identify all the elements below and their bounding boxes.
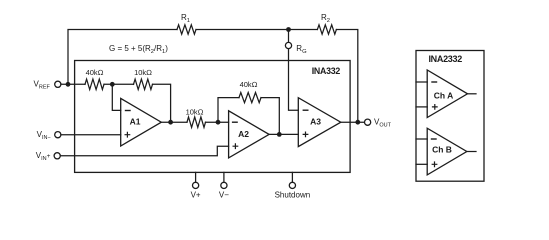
op-amp A1 minus sign: [126, 110, 131, 112]
svg-text:Shutdown: Shutdown: [275, 191, 311, 200]
node RG junction on top rail: [286, 27, 291, 32]
node A1 output junction: [168, 120, 173, 125]
op-amp A2 minus sign: [233, 121, 238, 123]
node output junction with R2 leg: [355, 120, 360, 125]
node A1 inverting junction: [110, 82, 115, 87]
svg-text:INA2332: INA2332: [428, 54, 462, 64]
svg-text:VREF: VREF: [34, 79, 51, 90]
wire V- stub: [223, 172, 225, 182]
wire VIN- to A1 noninverting input: [61, 134, 121, 136]
resistor 10k between A1 A2: [187, 117, 206, 127]
wire A1 output to 10k: [161, 121, 187, 123]
resistor 40k input: [85, 79, 104, 89]
terminal VIN-: [55, 132, 61, 138]
terminal VREF: [55, 81, 61, 87]
wire VIN+ to A2 noninverting input: [60, 146, 228, 156]
node A2 inverting junction: [216, 120, 221, 125]
op-amp Ch B minus sign: [432, 138, 437, 140]
wire 40k feedback down to A2 output: [261, 98, 279, 135]
svg-text:VOUT: VOUT: [374, 117, 392, 128]
wire top rail right segment down to output: [336, 30, 357, 123]
wire RG stub from rail to terminal: [288, 30, 290, 43]
op-amp A3 plus sign: [303, 132, 308, 137]
wire Ch A noninverting stub: [416, 106, 427, 108]
wire Ch B inverting stub: [416, 138, 427, 140]
svg-text:A1: A1: [130, 117, 141, 127]
terminal RG: [285, 42, 291, 48]
svg-text:40kΩ: 40kΩ: [240, 80, 258, 89]
terminal VOUT: [365, 119, 371, 125]
wire A2 feedback up left leg: [218, 98, 239, 123]
wire A2 output to A3 noninverting input: [269, 133, 298, 135]
resistor R1: [177, 25, 196, 34]
op-amp Ch A plus sign: [433, 105, 438, 110]
op-amp A3: [298, 98, 341, 147]
svg-text:Ch A: Ch A: [434, 91, 454, 101]
resistor 40k feedback A2: [239, 93, 261, 103]
terminal Shutdown: [289, 182, 295, 188]
op-amp Ch B plus sign: [432, 162, 437, 167]
wire VREF to 40k resistor: [61, 83, 85, 85]
wire 40k to 10k: [104, 83, 134, 85]
wire Ch A output stub: [468, 93, 477, 95]
svg-text:VIN−: VIN−: [37, 130, 51, 141]
svg-text:40kΩ: 40kΩ: [86, 68, 104, 77]
terminal VIN+: [54, 153, 60, 159]
svg-text:V+: V+: [191, 191, 201, 200]
wire node to A1 inverting input: [112, 84, 120, 110]
wire V+ stub: [195, 172, 197, 182]
op-amp A1 plus sign: [125, 132, 130, 137]
svg-text:R2: R2: [321, 13, 330, 24]
svg-text:INA332: INA332: [312, 66, 341, 76]
terminal V+: [193, 182, 199, 188]
wire Ch B noninverting stub: [416, 163, 427, 165]
svg-text:Ch B: Ch B: [432, 144, 452, 154]
resistor 10k feedback A1: [134, 79, 153, 89]
svg-text:RG: RG: [296, 44, 307, 55]
svg-text:A2: A2: [238, 129, 249, 139]
wire Ch B output stub: [467, 151, 476, 153]
op-amp A3 minus sign: [303, 109, 308, 111]
svg-text:10kΩ: 10kΩ: [134, 68, 152, 77]
main box INA332: [75, 61, 351, 173]
wire 10k to A2 inverting input: [206, 121, 229, 123]
svg-text:10kΩ: 10kΩ: [186, 107, 204, 116]
op-amp A2: [229, 111, 270, 158]
svg-text:VIN+: VIN+: [36, 151, 51, 162]
op-amp Ch A minus sign: [432, 81, 437, 83]
op-amp Ch B: [427, 128, 467, 175]
wire RG terminal down to A3 inverting input: [289, 49, 299, 111]
svg-text:V−: V−: [219, 191, 229, 200]
node VREF / top-rail junction: [66, 82, 71, 87]
svg-text:G = 5 + 5(R2/R1): G = 5 + 5(R2/R1): [109, 44, 168, 55]
resistor R2: [317, 25, 336, 34]
node A2 output junction: [277, 132, 282, 137]
box INA2332: [416, 51, 484, 182]
wire A3 output to VOUT: [341, 121, 365, 123]
wire top rail left segment: [68, 30, 177, 85]
terminal V-: [221, 182, 227, 188]
wire 10k down to A1 output: [153, 84, 171, 122]
wire Ch A inverting stub: [416, 81, 427, 83]
wire top rail middle segment: [196, 29, 317, 31]
op-amp A1: [121, 98, 162, 146]
wire Shutdown stub: [291, 172, 293, 182]
svg-text:A3: A3: [310, 117, 321, 127]
op-amp Ch A: [427, 70, 467, 118]
op-amp A2 plus sign: [233, 144, 238, 149]
svg-text:R1: R1: [181, 13, 190, 24]
